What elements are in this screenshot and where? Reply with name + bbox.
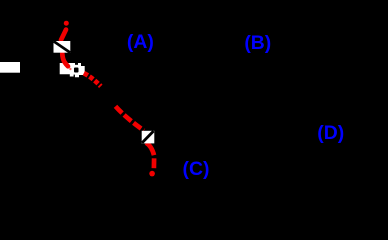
node red end dot (149, 171, 155, 177)
node white halo at left edge (HO label off-canvas) (0, 62, 20, 73)
wire black bond through box1 (54, 41, 71, 52)
node white halo box2 with bond (142, 131, 155, 144)
wire red dashed curve: long bend dash from box1 to O label (62, 54, 68, 67)
node white halo of O-H label (60, 63, 85, 77)
node red speck at O (69, 68, 71, 70)
wire red dashed tail below box2 (146, 143, 154, 156)
wire red dashed arc to box2 (116, 106, 144, 130)
wire black bond stub above O (75, 63, 78, 65)
node label (C) (182, 160, 209, 179)
wire red dashed run right of label (84, 73, 101, 86)
wire black divider below O (74, 75, 75, 78)
node label (D) (317, 124, 344, 143)
node white halo box1 with bond (54, 41, 71, 53)
node label (A) (127, 33, 154, 52)
wire red dashed curve: top dot (64, 21, 69, 26)
wire black bond through box2 (142, 131, 154, 143)
wire red dashed curve: upper vertical dash (61, 30, 66, 40)
node label (B) (244, 34, 271, 53)
node black O glyph blob (74, 68, 79, 73)
